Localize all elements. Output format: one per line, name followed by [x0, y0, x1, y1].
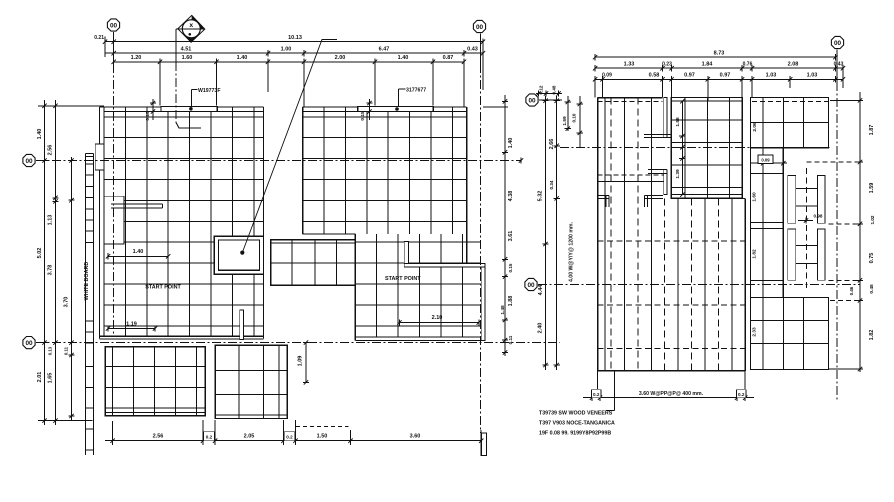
- svg-text:0.11: 0.11: [64, 346, 69, 355]
- svg-text:2.66: 2.66: [549, 139, 555, 150]
- svg-text:1.60: 1.60: [752, 192, 758, 202]
- svg-text:2.01: 2.01: [37, 372, 43, 383]
- svg-text:1.19: 1.19: [126, 322, 137, 328]
- svg-text:1.02: 1.02: [870, 215, 875, 224]
- svg-text:19F 0.08 99. 9199Y8P92P99B: 19F 0.08 99. 9199Y8P92P99B: [539, 431, 611, 437]
- svg-text:1.33: 1.33: [624, 61, 635, 67]
- svg-text:0.12: 0.12: [539, 85, 544, 94]
- svg-text:0.10: 0.10: [572, 113, 577, 122]
- svg-text:1.39: 1.39: [675, 169, 681, 179]
- svg-text:START POINT: START POINT: [385, 276, 421, 282]
- svg-text:4.38: 4.38: [508, 191, 514, 202]
- svg-text:T39739 SW WOOD VENEERS: T39739 SW WOOD VENEERS: [539, 411, 613, 417]
- svg-text:1.09: 1.09: [298, 356, 304, 367]
- svg-text:0.23: 0.23: [662, 61, 672, 67]
- svg-text:0.2: 0.2: [593, 392, 600, 397]
- svg-text:1.65: 1.65: [48, 373, 54, 384]
- svg-text:10.13: 10.13: [288, 35, 302, 41]
- svg-text:1.03: 1.03: [766, 73, 777, 79]
- svg-text:0.43: 0.43: [834, 61, 844, 67]
- svg-text:2.40: 2.40: [538, 323, 544, 334]
- svg-text:1.20: 1.20: [131, 55, 142, 61]
- svg-text:1.40: 1.40: [508, 138, 514, 149]
- svg-text:WHITE BOARD: WHITE BOARD: [84, 262, 90, 301]
- svg-text:2.00: 2.00: [335, 55, 346, 61]
- svg-text:0.76: 0.76: [743, 61, 753, 67]
- svg-text:2.56: 2.56: [48, 145, 54, 156]
- svg-text:00: 00: [527, 282, 535, 289]
- svg-text:W19773F: W19773F: [198, 88, 221, 94]
- svg-text:0.15: 0.15: [508, 263, 513, 272]
- svg-text:1.40: 1.40: [133, 249, 144, 255]
- svg-text:1.82: 1.82: [869, 330, 875, 341]
- svg-text:0.48: 0.48: [869, 284, 875, 294]
- svg-text:4.44: 4.44: [538, 284, 544, 296]
- svg-text:2.08: 2.08: [788, 61, 799, 67]
- svg-text:6.47: 6.47: [379, 46, 390, 52]
- svg-text:0.97: 0.97: [720, 73, 731, 79]
- svg-text:8.73: 8.73: [714, 50, 725, 56]
- svg-text:0.13: 0.13: [48, 346, 53, 355]
- svg-text:1.48: 1.48: [500, 305, 506, 315]
- svg-text:0.46: 0.46: [849, 286, 854, 295]
- svg-text:1.00: 1.00: [281, 46, 292, 52]
- svg-text:1.60: 1.60: [182, 55, 193, 61]
- svg-text:3177677: 3177677: [406, 88, 426, 94]
- svg-text:0.11: 0.11: [508, 335, 513, 344]
- svg-text:1.40: 1.40: [237, 55, 248, 61]
- svg-text:0.48: 0.48: [552, 85, 557, 94]
- svg-text:1.40: 1.40: [398, 55, 409, 61]
- svg-text:2.05: 2.05: [244, 434, 255, 440]
- svg-text:00: 00: [25, 158, 33, 165]
- svg-text:3.60 W@PP@P@ 400 mm.: 3.60 W@PP@P@ 400 mm.: [639, 391, 704, 397]
- svg-text:T397 V903 NOCE-TANGANICA: T397 V903 NOCE-TANGANICA: [539, 421, 615, 427]
- svg-text:3.60: 3.60: [410, 434, 421, 440]
- svg-text:00: 00: [528, 97, 536, 104]
- svg-text:0.58: 0.58: [649, 73, 660, 79]
- svg-text:START POINT: START POINT: [145, 285, 181, 291]
- svg-text:00: 00: [110, 22, 118, 29]
- svg-text:0.2: 0.2: [206, 434, 213, 439]
- svg-text:4.51: 4.51: [181, 46, 192, 52]
- svg-text:3.70: 3.70: [64, 297, 70, 308]
- svg-text:1.58: 1.58: [675, 117, 681, 127]
- svg-text:0.87: 0.87: [443, 55, 454, 61]
- svg-text:1.82: 1.82: [752, 249, 758, 259]
- svg-text:0.34: 0.34: [549, 180, 554, 189]
- svg-text:3.78: 3.78: [48, 265, 54, 276]
- svg-text:1.59: 1.59: [562, 116, 568, 126]
- svg-text:0.43: 0.43: [467, 46, 478, 52]
- svg-text:0.15: 0.15: [360, 111, 366, 121]
- svg-text:0.97: 0.97: [684, 73, 695, 79]
- svg-text:2.56: 2.56: [153, 434, 164, 440]
- svg-text:0.15: 0.15: [145, 111, 151, 121]
- svg-text:1.40: 1.40: [37, 129, 43, 140]
- svg-text:4.00 W@Y/Y@ 1200 mm.: 4.00 W@Y/Y@ 1200 mm.: [569, 221, 575, 282]
- svg-text:1.59: 1.59: [869, 183, 875, 194]
- svg-text:0.75: 0.75: [869, 253, 875, 264]
- svg-text:1.03: 1.03: [807, 73, 818, 79]
- svg-text:00: 00: [25, 340, 33, 347]
- svg-text:0.98: 0.98: [814, 214, 823, 219]
- svg-text:0.2: 0.2: [738, 392, 745, 397]
- svg-text:5.02: 5.02: [37, 248, 43, 259]
- svg-text:0.09: 0.09: [602, 73, 612, 79]
- svg-text:1.50: 1.50: [317, 434, 328, 440]
- svg-text:2.10: 2.10: [432, 315, 443, 321]
- svg-text:0.21: 0.21: [94, 35, 104, 41]
- svg-text:0.2: 0.2: [286, 434, 293, 439]
- svg-text:2.33: 2.33: [752, 327, 758, 337]
- svg-text:00: 00: [834, 40, 842, 47]
- svg-text:x: x: [189, 22, 193, 29]
- svg-text:1.13: 1.13: [48, 215, 54, 226]
- svg-text:1.87: 1.87: [869, 125, 875, 136]
- svg-text:0.09: 0.09: [761, 158, 770, 163]
- svg-text:5.32: 5.32: [538, 191, 544, 202]
- svg-text:2.06: 2.06: [752, 122, 758, 132]
- svg-text:1.88: 1.88: [508, 296, 514, 307]
- svg-text:3.61: 3.61: [508, 231, 514, 242]
- svg-text:1.84: 1.84: [702, 61, 714, 67]
- svg-text:00: 00: [476, 24, 484, 31]
